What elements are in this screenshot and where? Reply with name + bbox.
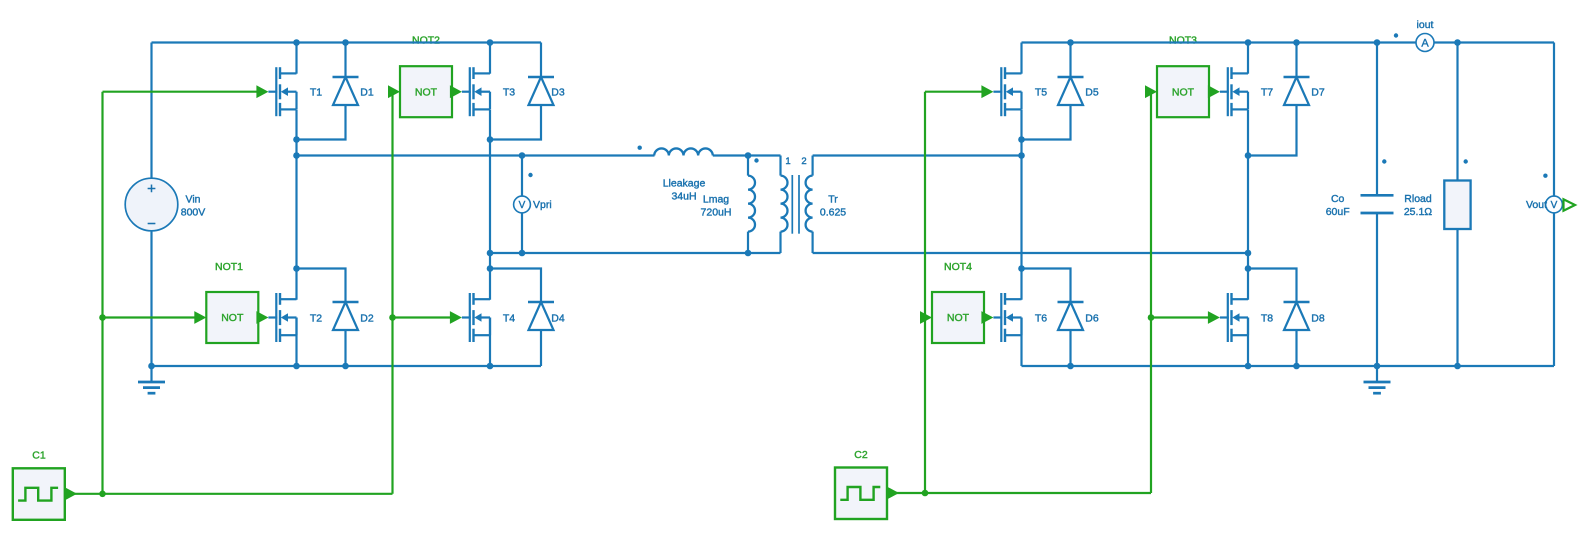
pulse generator C2 xyxy=(835,468,887,520)
arrow C2 output xyxy=(887,487,899,500)
wire D2 anode xyxy=(344,330,346,366)
svg-text:1: 1 xyxy=(785,156,790,167)
svg-text:T8: T8 xyxy=(1261,312,1273,324)
logic gate NOT1 xyxy=(206,292,258,343)
node green T4 tap xyxy=(389,314,396,321)
ground right xyxy=(1364,366,1391,393)
wire secondary bottom rail xyxy=(813,252,1248,254)
wire D3 anode to node B xyxy=(490,105,541,140)
node Vpri top xyxy=(519,152,526,159)
transformer Tr secondary winding xyxy=(806,156,813,254)
diode D7 xyxy=(1284,77,1310,105)
svg-text:34uH: 34uH xyxy=(671,191,696,203)
arrow T1 gate xyxy=(256,85,268,98)
wire secondary top rail xyxy=(813,154,1022,156)
svg-text:Vpri: Vpri xyxy=(533,199,552,211)
wire T8 gate feed xyxy=(1151,316,1208,318)
arrow T5 gate xyxy=(981,85,993,98)
svg-text:800V: 800V xyxy=(181,207,206,219)
svg-text:2: 2 xyxy=(801,156,806,167)
wire D7 top xyxy=(1295,43,1297,78)
wire D5 anode join xyxy=(1022,105,1071,140)
polarity dot Vpri xyxy=(528,173,532,177)
wire Vpri bottom stem xyxy=(521,212,523,253)
transistor T7 xyxy=(1220,67,1248,116)
wire D3 top xyxy=(540,43,542,78)
transistor T2 xyxy=(268,293,296,342)
node green NOT1 tap xyxy=(99,314,106,321)
transistor T1 xyxy=(268,67,296,116)
output port arrow Vout xyxy=(1564,199,1576,210)
polarity dot Rload xyxy=(1464,159,1468,163)
node B diode join xyxy=(487,136,494,143)
svg-text:D7: D7 xyxy=(1311,87,1325,99)
wire T4 gate feed xyxy=(393,316,452,318)
wire Vout top stem xyxy=(1553,43,1555,198)
node T7 drain xyxy=(1245,39,1252,46)
wire Rload bottom stem xyxy=(1456,229,1458,366)
wire NOT1 input feed xyxy=(103,316,195,318)
wire bottom rail right xyxy=(1022,365,1555,367)
wire green net4 vertical xyxy=(1150,92,1152,493)
svg-text:Lleakage: Lleakage xyxy=(663,178,706,190)
wire Co top stem xyxy=(1376,43,1378,196)
node leg1 diode join xyxy=(1018,136,1025,143)
node T8 source xyxy=(1245,363,1252,370)
wire Vpri top stem xyxy=(521,156,523,198)
wire T2 source riser xyxy=(295,318,297,367)
arrow NOT2 output xyxy=(450,85,462,98)
node B rail tap xyxy=(487,250,494,257)
node Rload top xyxy=(1454,39,1461,46)
node leg2 rail tap xyxy=(1245,250,1252,257)
wire leg B vertical xyxy=(489,110,491,300)
wire Vout bottom stem xyxy=(1553,212,1555,366)
node D5 cathode xyxy=(1067,39,1074,46)
svg-text:Rload: Rload xyxy=(1404,193,1432,205)
transistor T4 xyxy=(462,293,490,342)
transistor T5 xyxy=(993,67,1021,116)
wire Rload top stem xyxy=(1456,43,1458,181)
wire node A rail xyxy=(297,154,655,156)
node Co top xyxy=(1374,39,1381,46)
svg-text:D6: D6 xyxy=(1085,312,1099,324)
svg-text:Lmag: Lmag xyxy=(703,194,729,206)
wire D7 anode join xyxy=(1248,105,1297,156)
svg-text:T7: T7 xyxy=(1261,87,1273,99)
node green T8 tap xyxy=(1148,314,1155,321)
node B lower join xyxy=(487,265,494,272)
transistor T6 xyxy=(993,293,1021,342)
transformer Tr core xyxy=(792,175,799,234)
wire D1 top xyxy=(344,43,346,78)
svg-text:T4: T4 xyxy=(503,312,515,324)
polarity dot iout xyxy=(1394,33,1398,37)
node Lmag top xyxy=(745,152,752,159)
wire D8 anode xyxy=(1295,330,1297,366)
svg-text:+: + xyxy=(147,181,156,198)
voltage source Vin xyxy=(125,178,178,232)
svg-text:NOT1: NOT1 xyxy=(215,261,243,273)
transistor T3 xyxy=(462,67,490,116)
svg-text:NOT4: NOT4 xyxy=(944,261,972,273)
svg-text:Tr: Tr xyxy=(828,194,838,206)
node green C1 corner xyxy=(99,491,106,498)
transformer Tr primary winding xyxy=(781,156,788,254)
arrow NOT1 input xyxy=(194,311,206,324)
svg-text:V: V xyxy=(519,200,526,211)
ground left xyxy=(138,366,165,393)
arrow NOT3 input xyxy=(1145,85,1157,98)
diode D8 xyxy=(1284,302,1310,330)
node leg1 lower join xyxy=(1018,265,1025,272)
svg-text:60uF: 60uF xyxy=(1326,206,1350,218)
node D7 cathode xyxy=(1293,39,1300,46)
svg-text:C2: C2 xyxy=(854,449,868,461)
arrow NOT4 input xyxy=(920,311,932,324)
wire T1 drain riser xyxy=(295,43,297,74)
inductor Lmag xyxy=(748,156,755,254)
svg-text:C1: C1 xyxy=(32,450,46,462)
polarity dot Lleakage xyxy=(638,146,642,150)
node T3 drain xyxy=(487,39,494,46)
wire D4 anode xyxy=(540,330,542,366)
svg-text:T2: T2 xyxy=(310,312,322,324)
wire T6 source riser xyxy=(1020,318,1022,367)
wire T8 source riser xyxy=(1247,318,1249,367)
wire D5 top xyxy=(1069,43,1071,78)
diode D5 xyxy=(1058,77,1084,105)
wire green net3 vertical xyxy=(924,92,926,493)
node ground right xyxy=(1374,363,1381,370)
ammeter iout xyxy=(1416,34,1434,52)
svg-text:A: A xyxy=(1421,38,1429,50)
node D6 anode xyxy=(1067,363,1074,370)
wire green net1 vertical xyxy=(101,92,103,494)
wire green net2 vertical xyxy=(391,92,393,494)
svg-text:T5: T5 xyxy=(1035,87,1047,99)
svg-text:NOT: NOT xyxy=(221,312,244,324)
diode D4 xyxy=(528,302,554,330)
node A diode join xyxy=(293,136,300,143)
svg-text:0.625: 0.625 xyxy=(820,207,846,219)
node A rail tap xyxy=(293,152,300,159)
node ground left xyxy=(148,363,155,370)
svg-text:T3: T3 xyxy=(503,87,515,99)
wire T5 drain riser xyxy=(1020,43,1022,74)
resistor Rload xyxy=(1444,181,1470,230)
wire Vin bottom riser xyxy=(150,231,152,367)
svg-text:D4: D4 xyxy=(551,312,565,324)
logic gate NOT4 xyxy=(932,292,984,343)
arrow NOT1 output xyxy=(256,311,268,324)
svg-text:D2: D2 xyxy=(360,312,374,324)
wire Co bottom stem xyxy=(1376,213,1378,366)
polarity dot Vout xyxy=(1543,174,1547,178)
svg-text:NOT3: NOT3 xyxy=(1169,35,1197,47)
wire right leg1 vertical xyxy=(1020,110,1022,300)
wire bottom rail left xyxy=(152,365,542,367)
wire C1 output xyxy=(65,493,393,495)
node D1 cathode xyxy=(342,39,349,46)
wire T2 drain to D2 xyxy=(297,269,346,303)
diode D3 xyxy=(528,77,554,105)
arrow NOT4 output xyxy=(981,311,993,324)
svg-text:D1: D1 xyxy=(360,87,374,99)
pulse generator C1 xyxy=(13,468,65,520)
diode D6 xyxy=(1058,302,1084,330)
svg-text:−: − xyxy=(147,216,156,233)
wire T6 drain to D6 xyxy=(1022,269,1071,303)
wire C2 output xyxy=(887,492,1151,494)
node A lower join xyxy=(293,265,300,272)
node T4 source xyxy=(487,363,494,370)
svg-text:NOT: NOT xyxy=(1172,86,1195,98)
arrow C1 output xyxy=(65,487,77,500)
wire Vin top riser xyxy=(150,43,152,179)
node leg1 rail tap xyxy=(1018,152,1025,159)
wire T1 gate feed xyxy=(103,91,258,93)
arrow NOT3 output xyxy=(1208,85,1220,98)
diode D2 xyxy=(333,302,359,330)
node Vpri bottom xyxy=(519,250,526,257)
node leg2 diode join xyxy=(1245,152,1252,159)
wire T5 gate feed xyxy=(925,91,982,93)
wire T3 drain riser xyxy=(489,43,491,74)
node Rload bottom xyxy=(1454,363,1461,370)
arrow T4 gate xyxy=(450,311,462,324)
svg-text:NOT2: NOT2 xyxy=(412,35,440,47)
node green NOT4 tap xyxy=(922,314,929,321)
svg-text:25.1Ω: 25.1Ω xyxy=(1404,206,1432,218)
node D8 anode xyxy=(1293,363,1300,370)
svg-text:Vin: Vin xyxy=(186,194,201,206)
wire T4 drain to D4 xyxy=(490,269,541,303)
wire T8 drain to D8 xyxy=(1248,269,1297,303)
svg-text:V: V xyxy=(1551,200,1558,211)
diode D1 xyxy=(333,77,359,105)
logic gate NOT3 xyxy=(1157,66,1209,117)
wire leg A vertical xyxy=(295,110,297,300)
wire node B rail xyxy=(490,252,781,254)
svg-text:iout: iout xyxy=(1417,19,1434,31)
voltmeter Vpri xyxy=(514,196,531,213)
svg-text:NOT: NOT xyxy=(947,312,970,324)
logic gate NOT2 xyxy=(400,66,452,117)
transistor T8 xyxy=(1220,293,1248,342)
wire top rail left xyxy=(152,41,542,43)
capacitor Co xyxy=(1361,195,1394,213)
svg-text:NOT: NOT xyxy=(415,86,438,98)
node T1 drain xyxy=(293,39,300,46)
node T2 source xyxy=(293,363,300,370)
svg-text:T6: T6 xyxy=(1035,312,1047,324)
node D2 anode xyxy=(342,363,349,370)
wire D1 anode to node A xyxy=(297,105,346,140)
wire leakage to primary xyxy=(713,154,781,156)
svg-text:T1: T1 xyxy=(310,87,322,99)
arrow NOT2 input xyxy=(388,85,400,98)
svg-text:D3: D3 xyxy=(551,87,565,99)
wire D6 anode xyxy=(1069,330,1071,366)
arrow T8 gate xyxy=(1208,311,1220,324)
svg-text:Vout: Vout xyxy=(1526,199,1547,211)
polarity dot Lmag xyxy=(754,158,758,162)
voltmeter Vout xyxy=(1546,196,1563,213)
inductor Lleakage xyxy=(654,148,713,155)
node leg2 lower join xyxy=(1245,265,1252,272)
node green C2 corner xyxy=(922,490,929,497)
svg-text:D5: D5 xyxy=(1085,87,1099,99)
wire right leg2 vertical xyxy=(1247,110,1249,300)
polarity dot Co xyxy=(1382,159,1386,163)
svg-text:720uH: 720uH xyxy=(701,207,732,219)
wire top rail right xyxy=(1022,41,1555,43)
wire T4 source riser xyxy=(489,318,491,367)
svg-text:Co: Co xyxy=(1331,193,1345,205)
wire T7 drain riser xyxy=(1247,43,1249,74)
svg-text:D8: D8 xyxy=(1311,312,1325,324)
node Lmag bottom xyxy=(745,250,752,257)
